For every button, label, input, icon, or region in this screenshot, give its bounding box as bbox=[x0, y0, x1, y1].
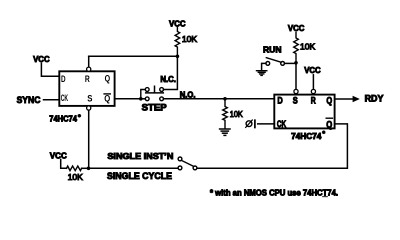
label SINGLE CYCLE bbox=[107, 171, 172, 181]
svg-text:VCC: VCC bbox=[288, 23, 305, 33]
pin label CK of U2 bbox=[277, 118, 286, 129]
flip-flop U1 74HC74 body bbox=[59, 71, 114, 106]
wire junction to SINGLE CYCLE contact bbox=[89, 167, 179, 169]
wire pole to lower contact bbox=[141, 98, 146, 100]
svg-text:CK: CK bbox=[277, 118, 286, 129]
svg-text:Q: Q bbox=[105, 72, 111, 83]
part label 74HC74* of U2 bbox=[291, 131, 325, 141]
resistor R3 10K horizontal bbox=[67, 166, 82, 171]
pin label Q-bar of U1 bbox=[104, 92, 110, 103]
footnote with an NMOS CPU use 74HCT74 bbox=[210, 188, 338, 197]
svg-text:VCC: VCC bbox=[304, 65, 321, 75]
svg-text:VCC: VCC bbox=[33, 54, 50, 64]
label SINGLE INST'N bbox=[107, 151, 173, 161]
switch S1 actuator bar and stem bbox=[146, 86, 164, 93]
svg-text:*: * bbox=[322, 131, 325, 138]
pin label S of U2 bbox=[293, 95, 298, 106]
svg-text:N.C.: N.C. bbox=[160, 75, 176, 84]
pin label Q of U2 bbox=[326, 94, 332, 105]
wire N.C. contact up to top rail bbox=[164, 56, 178, 89]
value label 10K of R3 bbox=[68, 173, 84, 182]
pin bubble S (U2) bbox=[294, 89, 298, 93]
svg-text:10K: 10K bbox=[182, 35, 198, 44]
svg-text:STEP: STEP bbox=[142, 103, 167, 113]
wire VCC down to R bubble of U2 bbox=[312, 75, 314, 90]
pin bubble S (U1, inverted set) bbox=[87, 106, 91, 110]
wire S bubble of U1 down to junction bbox=[88, 110, 90, 168]
pin label R of U2 bbox=[311, 95, 316, 106]
node junction STEP pole bbox=[139, 97, 143, 101]
pin bubble R (U2) bbox=[311, 89, 315, 93]
value label 10K of R1 bbox=[182, 35, 198, 44]
part label 74HC74* of U1 bbox=[49, 114, 81, 123]
svg-text:10K: 10K bbox=[68, 173, 84, 182]
pin label CK of U1 bbox=[61, 92, 69, 103]
switch S1 STEP pushbutton contacts bbox=[145, 88, 163, 101]
flip-flop U2 74HC74 body bbox=[274, 95, 334, 129]
wire S line down to S bubble of U2 bbox=[295, 63, 297, 90]
wire VCC elbow to D of U1 bbox=[41, 63, 59, 76]
svg-text:R: R bbox=[85, 73, 90, 84]
pin bubble R (U1, inverted reset) bbox=[87, 67, 91, 71]
svg-text:RDY: RDY bbox=[365, 94, 384, 104]
svg-text:D: D bbox=[277, 95, 283, 106]
wire SYNC to CK of U1 bbox=[44, 99, 60, 101]
wire RUN left contact to ground bbox=[262, 63, 266, 70]
wire pole elbow to upper contact bbox=[141, 90, 146, 99]
value label 10K of R4 bbox=[230, 110, 244, 119]
svg-text:* with an NMOS CPU use 74HCT74: * with an NMOS CPU use 74HCT74. bbox=[210, 188, 338, 197]
svg-text:Q: Q bbox=[326, 118, 332, 129]
label N.C. bbox=[160, 75, 176, 84]
svg-text:D: D bbox=[61, 73, 66, 84]
svg-text:SINGLE CYCLE: SINGLE CYCLE bbox=[107, 171, 172, 181]
pin label R of U1 bbox=[85, 73, 90, 84]
switch S3 SINGLE contacts and arm bbox=[178, 157, 197, 170]
pin label D of U2 bbox=[277, 95, 283, 106]
node phase clock label Ø1 bbox=[246, 120, 255, 128]
wire drop to R bubble of U1 bbox=[88, 56, 90, 67]
svg-text:10K: 10K bbox=[230, 110, 244, 119]
node junction top (pullup / N.C.) bbox=[176, 55, 180, 59]
wire Q-bar of U1 to STEP pole bbox=[115, 98, 139, 100]
label RUN bbox=[263, 44, 282, 54]
node junction pulldown bbox=[223, 97, 227, 101]
svg-text:SYNC: SYNC bbox=[17, 95, 41, 105]
label STEP bbox=[142, 103, 167, 113]
svg-text:10K: 10K bbox=[300, 43, 316, 52]
pin label S of U1 bbox=[87, 93, 92, 104]
wire top rail (R line to pullup) bbox=[89, 55, 178, 57]
value label 10K of R2 bbox=[300, 43, 316, 52]
pin label Q-bar of U2 bbox=[326, 118, 332, 129]
svg-text:CK: CK bbox=[61, 92, 69, 103]
node SYNC input label bbox=[17, 95, 41, 105]
wire Q of U2 to RDY arrow bbox=[335, 96, 360, 102]
resistor R1 10K pullup top center bbox=[175, 28, 180, 57]
ground symbol under R4 bbox=[220, 129, 230, 135]
wire Q-bar of U2 feedback down and left bbox=[197, 124, 347, 168]
VCC power label bottom left bbox=[50, 151, 67, 161]
wire R3 to junction bbox=[82, 167, 89, 169]
svg-text:*: * bbox=[78, 114, 81, 121]
VCC power label above R1 bbox=[169, 18, 186, 28]
svg-text:74HC74: 74HC74 bbox=[291, 132, 322, 141]
svg-text:S: S bbox=[293, 95, 298, 106]
svg-text:S: S bbox=[87, 93, 92, 104]
node junction RUN / pullup bbox=[294, 61, 298, 65]
svg-text:VCC: VCC bbox=[50, 151, 67, 161]
resistor R2 10K pullup right bbox=[294, 33, 299, 63]
svg-text:Q: Q bbox=[326, 94, 332, 105]
VCC power label right top bbox=[288, 23, 305, 33]
wire N.O. rail to D of U2 bbox=[164, 98, 275, 100]
wire RUN right contact to S line bbox=[285, 62, 297, 64]
pin label Q of U1 bbox=[105, 72, 111, 83]
svg-text:RUN: RUN bbox=[263, 44, 282, 54]
resistor R4 10K pulldown bbox=[223, 99, 228, 129]
switch S2 RUN contacts and arm bbox=[266, 58, 285, 66]
svg-text:R: R bbox=[311, 95, 316, 106]
wire Ø1 to CK of U2 bbox=[258, 123, 275, 125]
node RDY output label bbox=[365, 94, 384, 104]
svg-text:VCC: VCC bbox=[169, 18, 186, 28]
VCC power label top left bbox=[33, 54, 50, 64]
svg-text:74HC74: 74HC74 bbox=[49, 114, 77, 123]
pin label D of U1 bbox=[61, 73, 66, 84]
svg-text:SINGLE INST’N: SINGLE INST’N bbox=[107, 151, 173, 161]
label N.O. bbox=[180, 90, 196, 99]
wire VCC elbow to R3 bbox=[61, 160, 67, 169]
node junction S pulldown bbox=[87, 167, 91, 171]
svg-text:N.O.: N.O. bbox=[180, 90, 196, 99]
VCC power label mid right bbox=[304, 65, 321, 75]
ground symbol under RUN bbox=[257, 71, 267, 76]
